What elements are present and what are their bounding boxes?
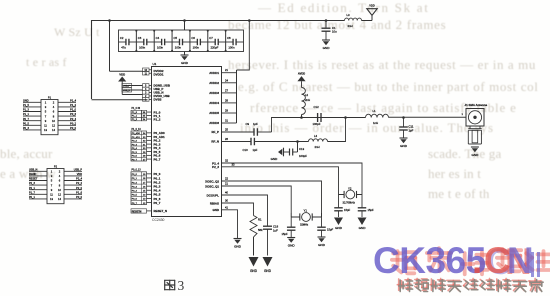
capacitor C10 1pF (RF_N) <box>222 138 309 146</box>
capacitor C3 100n <box>136 39 154 46</box>
watermark CK365 blue text <box>373 240 486 282</box>
svg-text:25: 25 <box>225 128 228 132</box>
svg-text:1pF: 1pF <box>409 129 414 133</box>
svg-text:P1_1: P1_1 <box>23 113 29 116</box>
svg-text:USB_N: USB_N <box>29 168 38 171</box>
svg-text:P2_3: P2_3 <box>212 165 219 169</box>
wire capbank v3 <box>171 30 173 52</box>
svg-text:P2_0: P2_0 <box>76 187 82 190</box>
svg-text:GND: GND <box>400 144 408 148</box>
wire VDD riser <box>371 15 373 21</box>
svg-text:AVDD2: AVDD2 <box>209 81 219 85</box>
svg-text:100pF: 100pF <box>299 154 307 158</box>
svg-text:P0_7: P0_7 <box>132 159 138 161</box>
svg-text:24: 24 <box>225 78 228 82</box>
svg-text:15pF: 15pF <box>327 228 333 232</box>
svg-text:DVDD1: DVDD1 <box>154 73 164 77</box>
svg-text:C3: C3 <box>138 36 142 40</box>
svg-text:47u: 47u <box>121 45 126 49</box>
svg-text:CC2430: CC2430 <box>152 218 165 222</box>
svg-text:VDD: VDD <box>119 72 125 76</box>
svg-text:AVDD1: AVDD1 <box>209 71 219 75</box>
ground below C1 <box>322 40 330 50</box>
svg-text:P0_4: P0_4 <box>70 118 76 121</box>
ground arrow below C18 <box>263 257 273 273</box>
svg-text:2nH: 2nH <box>315 145 320 149</box>
svg-text:56k: 56k <box>258 228 263 232</box>
svg-text:L1: L1 <box>373 109 377 113</box>
svg-text:15pF: 15pF <box>282 232 288 236</box>
svg-text:12: 12 <box>58 193 61 197</box>
svg-text:31: 31 <box>225 119 228 123</box>
wire y2 lead l <box>339 194 345 196</box>
power VDD <box>367 4 377 16</box>
capacitor bank box <box>119 30 244 52</box>
svg-text:21: 21 <box>225 182 228 186</box>
svg-text:P1: P1 <box>48 95 52 99</box>
svg-text:RF_P: RF_P <box>211 130 219 134</box>
capacitor C18 1uF <box>263 226 272 256</box>
inductor L3 <box>345 18 362 20</box>
svg-text:USB_P: USB_P <box>123 86 131 88</box>
svg-text:P0_7: P0_7 <box>132 203 138 205</box>
svg-text:100pF: 100pF <box>313 122 321 126</box>
svg-text:VDD: VDD <box>77 173 82 176</box>
svg-text:C9: C9 <box>246 122 250 126</box>
node rail-avdd <box>248 19 251 22</box>
svg-text:C12: C12 <box>314 105 320 109</box>
svg-text:40: 40 <box>225 191 228 195</box>
svg-text:1: 1 <box>51 170 53 174</box>
svg-text:C10: C10 <box>243 148 249 152</box>
svg-text:C7: C7 <box>209 36 213 40</box>
svg-text:2nH: 2nH <box>305 98 310 102</box>
svg-text:32.768kHz: 32.768kHz <box>343 200 356 204</box>
wire y1 lead l <box>291 216 300 218</box>
svg-text:AVDD: AVDD <box>298 71 305 75</box>
svg-text:2: 2 <box>59 170 61 174</box>
svg-text:GND: GND <box>23 99 29 102</box>
svg-text:1pF: 1pF <box>253 148 258 152</box>
wire C13 drop <box>297 142 299 153</box>
svg-text:P0_7: P0_7 <box>154 157 161 161</box>
wire USB_N stub <box>123 89 142 91</box>
inductor L1 <box>366 114 389 117</box>
svg-text:21: 21 <box>225 68 228 72</box>
resistor R1 56k <box>250 216 257 238</box>
svg-text:10: 10 <box>52 119 55 123</box>
svg-text:GND: GND <box>212 208 219 212</box>
capacitor C9 1pF (RF_P) <box>222 128 272 136</box>
svg-text:12: 12 <box>52 124 55 128</box>
wire match rail <box>272 117 317 119</box>
connector table group P0 <box>131 170 161 205</box>
svg-text:P0_1: P0_1 <box>29 196 35 199</box>
wire DVDD wire <box>110 70 143 72</box>
svg-text:29: 29 <box>225 109 228 113</box>
capacitor C2 47u <box>119 39 137 46</box>
node rail-shunt <box>325 19 328 22</box>
ground capbank <box>181 55 189 65</box>
svg-text:J1 SMA Antenna: J1 SMA Antenna <box>465 103 488 107</box>
svg-text:1pF: 1pF <box>253 122 258 126</box>
node C11 tap <box>402 116 405 119</box>
svg-text:P1_2: P1_2 <box>132 119 138 121</box>
svg-text:P0_0: P0_0 <box>70 127 76 130</box>
svg-text:GND: GND <box>318 243 326 247</box>
svg-text:C5: C5 <box>174 36 178 40</box>
svg-text:P1_4: P1_4 <box>70 99 76 102</box>
svg-text:1: 1 <box>45 101 47 105</box>
svg-text:100n: 100n <box>193 45 200 49</box>
wire shunt drop <box>325 21 327 28</box>
svg-text:8: 8 <box>59 183 61 187</box>
antenna connector J1 SMA <box>462 103 488 126</box>
svg-text:Y1: Y1 <box>304 209 308 213</box>
capacitor C8 100n <box>226 39 244 46</box>
svg-text:RESETN: RESETN <box>132 210 142 213</box>
IC left pin names <box>154 69 171 102</box>
svg-text:7: 7 <box>45 114 47 118</box>
node L2 junction <box>300 116 303 119</box>
svg-text:2nH: 2nH <box>348 24 353 28</box>
svg-text:27: 27 <box>225 88 228 92</box>
wire DVDD drop <box>109 21 111 72</box>
svg-text:GND: GND <box>359 226 367 230</box>
svg-text:1uF: 1uF <box>273 229 278 233</box>
wire capbank v6 <box>225 30 227 52</box>
connector table group P0 AD <box>131 129 165 162</box>
wire capbank feed <box>184 21 186 31</box>
wire capbank gnd drop <box>184 52 186 55</box>
svg-text:33: 33 <box>232 162 235 166</box>
ground arrow below R1 <box>249 257 259 273</box>
wire L1 to antenna <box>389 116 467 118</box>
svg-text:41: 41 <box>225 205 228 209</box>
svg-text:GND: GND <box>471 153 479 157</box>
svg-text:AVDD4: AVDD4 <box>209 101 219 105</box>
svg-text:13: 13 <box>44 128 47 132</box>
svg-text:220pF: 220pF <box>211 45 219 49</box>
svg-text:30: 30 <box>225 199 228 203</box>
svg-text:XOSC_Q1: XOSC_Q1 <box>205 184 219 188</box>
svg-text:GND: GND <box>264 269 272 273</box>
wire capbank v4 <box>189 30 191 52</box>
ground below C17 <box>287 238 295 248</box>
figure caption 图3 <box>165 278 185 293</box>
inductor L4 <box>309 139 328 142</box>
wire AVDD bus <box>236 70 238 123</box>
svg-text:100n: 100n <box>157 45 164 49</box>
svg-text:L4: L4 <box>314 134 318 138</box>
svg-text:P0_7: P0_7 <box>23 118 29 121</box>
svg-text:C6: C6 <box>191 36 195 40</box>
svg-text:14: 14 <box>52 128 55 132</box>
svg-text:RF_N: RF_N <box>211 140 219 144</box>
wire usb third stub <box>122 94 142 96</box>
svg-text:P0_0: P0_0 <box>76 196 82 199</box>
svg-text:AVDD6: AVDD6 <box>209 121 219 125</box>
svg-text:P2_4: P2_4 <box>76 178 82 181</box>
wire RF_P up to match rail <box>272 118 346 133</box>
svg-text:U1: U1 <box>153 62 157 66</box>
svg-text:6: 6 <box>53 110 55 114</box>
svg-text:P2_3: P2_3 <box>29 182 35 185</box>
ground below C15 <box>334 218 343 231</box>
crystal Y2 32.768kHz <box>344 190 356 199</box>
svg-text:P0_7: P0_7 <box>154 201 161 205</box>
svg-text:R1: R1 <box>258 218 262 222</box>
svg-text:2: 2 <box>53 101 55 105</box>
watermark slogan pseudo-CJK <box>397 278 543 292</box>
svg-text:GND: GND <box>335 226 343 230</box>
svg-text:11: 11 <box>50 193 53 197</box>
node rail-left2 <box>108 19 111 22</box>
wire AVDD bus to rail <box>237 21 250 71</box>
svg-text:4: 4 <box>59 174 61 178</box>
svg-text:USB_P: USB_P <box>74 168 83 171</box>
wire y1 vert l <box>290 213 292 217</box>
svg-text:DCOUPL: DCOUPL <box>207 193 220 197</box>
IC U1 CC2430 <box>152 67 222 217</box>
svg-text:1nH: 1nH <box>373 121 378 125</box>
svg-text:P1_7: P1_7 <box>29 191 35 194</box>
capacitor C14 15pF <box>358 195 367 218</box>
svg-text:P1_3: P1_3 <box>23 109 29 112</box>
connector P2 <box>29 164 83 203</box>
svg-text:4: 4 <box>53 105 55 109</box>
svg-text:P1_2: P1_2 <box>70 104 76 107</box>
connector table group P1_0..P1_2 <box>131 108 161 121</box>
svg-text:100n: 100n <box>175 45 182 49</box>
capacitor C4 100n <box>154 39 172 46</box>
svg-text:26: 26 <box>225 137 228 141</box>
svg-text:DGND: DGND <box>29 173 37 176</box>
AVDD pin bus <box>209 68 236 125</box>
wire L2 lower lead <box>301 115 303 118</box>
svg-text:C4: C4 <box>156 36 160 40</box>
svg-text:1: 1 <box>462 112 464 116</box>
svg-text:P2_2: P2_2 <box>76 182 82 185</box>
wire y1 vert r <box>321 213 323 217</box>
svg-text:GND: GND <box>250 269 258 273</box>
ground left-pointing for C13 <box>271 148 284 161</box>
capacitor C16 15pF <box>317 217 326 237</box>
pin cells DVDD/USB <box>143 68 152 102</box>
svg-text:GND: GND <box>323 46 331 50</box>
svg-text:P1_0 36: P1_0 36 <box>132 108 141 110</box>
svg-text:28: 28 <box>225 98 228 102</box>
svg-text:P2: P2 <box>54 164 58 168</box>
svg-text:C8: C8 <box>227 36 231 40</box>
svg-text:32MHz: 32MHz <box>300 223 309 227</box>
svg-text:100n: 100n <box>139 45 146 49</box>
wire capbank v1 <box>135 30 137 52</box>
svg-text:9: 9 <box>51 188 53 192</box>
svg-text:AVDD3: AVDD3 <box>209 91 219 95</box>
capacitor C5 100n <box>172 39 190 46</box>
watermark red chinese characters <box>392 248 550 274</box>
svg-text:10u: 10u <box>332 30 337 34</box>
capacitor C7 220pF <box>208 39 226 46</box>
capacitor C11 1pF <box>399 118 408 138</box>
ground IC gnd <box>234 239 242 249</box>
svg-text:22: 22 <box>225 177 228 181</box>
node rfp junction <box>344 116 347 119</box>
svg-text:C2: C2 <box>120 36 124 40</box>
svg-text:100n: 100n <box>228 45 235 49</box>
wire L4 to junction <box>328 118 346 142</box>
power AVDD arrow <box>297 71 305 87</box>
antenna mounting legs <box>468 126 481 144</box>
svg-text:P1_6: P1_6 <box>76 191 82 194</box>
svg-text:RESET: RESET <box>29 178 38 181</box>
net RESETN <box>131 209 167 214</box>
svg-text:3: 3 <box>178 278 185 293</box>
wire y2 lead r <box>357 194 363 196</box>
watermark .CN red text <box>472 240 482 282</box>
svg-text:P1_5: P1_5 <box>23 104 29 107</box>
capacitor C6 100n <box>190 39 208 46</box>
svg-text:USB_N: USB_N <box>123 90 131 92</box>
svg-text:10: 10 <box>58 188 61 192</box>
svg-text:Y2: Y2 <box>348 187 352 191</box>
svg-text:VDD: VDD <box>369 4 375 8</box>
wire rail to L1 <box>346 117 366 119</box>
svg-text:13: 13 <box>50 197 53 201</box>
svg-text:15pF: 15pF <box>368 208 374 212</box>
svg-text:8: 8 <box>53 114 55 118</box>
ground below C14 <box>358 218 367 231</box>
svg-text:RESET_N: RESET_N <box>154 209 168 213</box>
wire top power rail <box>92 21 345 100</box>
svg-text:P0_0_13: P0_0_13 <box>132 170 142 172</box>
wire DVSS wire <box>92 99 148 101</box>
inductor L2 <box>302 88 306 115</box>
svg-text:15pF: 15pF <box>344 208 350 212</box>
svg-text:5: 5 <box>45 110 47 114</box>
svg-text:14: 14 <box>58 197 61 201</box>
svg-text:P2_1: P2_1 <box>29 187 35 190</box>
crystal Y1 32MHz <box>300 213 312 222</box>
node rail-capbank <box>183 19 186 22</box>
svg-text:GND: GND <box>288 244 296 248</box>
wire capbank v2 <box>153 30 155 52</box>
svg-text:5: 5 <box>51 179 53 183</box>
svg-text:32: 32 <box>225 159 228 163</box>
svg-text:3: 3 <box>45 105 47 109</box>
ground antenna <box>471 147 479 157</box>
ground below C11 <box>400 138 408 148</box>
svg-text:C13: C13 <box>299 147 305 151</box>
wire USB_P stub <box>123 85 142 87</box>
svg-text:P0_2: P0_2 <box>70 122 76 125</box>
svg-text:P0_5: P0_5 <box>23 122 29 125</box>
capacitor C15 15pF <box>334 195 343 218</box>
svg-text:P1_0_13: P1_0_13 <box>132 129 142 131</box>
wire capbank v5 <box>207 30 209 52</box>
svg-text:7: 7 <box>51 183 53 187</box>
capacitor C1 decoupling <box>322 27 331 40</box>
wire y1 lead r <box>312 216 321 218</box>
svg-text:P0_6: P0_6 <box>70 113 76 116</box>
svg-text:L3: L3 <box>347 13 351 17</box>
svg-text:XOSC_Q2: XOSC_Q2 <box>205 179 219 183</box>
power VDD digital arrow <box>118 72 126 94</box>
connector P1 <box>23 95 77 134</box>
svg-text:GND: GND <box>234 245 242 249</box>
svg-text:P0_3: P0_3 <box>23 127 29 130</box>
svg-text:9: 9 <box>45 119 47 123</box>
svg-text:GND: GND <box>271 157 279 161</box>
svg-text:6: 6 <box>59 179 61 183</box>
svg-text:P1_2: P1_2 <box>154 117 161 121</box>
wire R1 to gnd <box>253 237 255 256</box>
wire rail to VDD <box>362 20 373 22</box>
svg-text:GND: GND <box>181 61 189 65</box>
ground below C16 <box>318 237 326 247</box>
svg-text:P1_0: P1_0 <box>70 109 76 112</box>
capacitor C17 15pF <box>287 217 296 237</box>
svg-text:AVDD5: AVDD5 <box>209 111 219 115</box>
svg-text:DVSS: DVSS <box>154 98 162 102</box>
svg-text:RBIAS: RBIAS <box>210 201 219 205</box>
capacitor C12 series <box>316 113 323 122</box>
svg-text:11: 11 <box>44 124 47 128</box>
node rfn shunt <box>296 140 299 143</box>
svg-text:L2: L2 <box>305 93 309 97</box>
svg-text:3: 3 <box>51 174 53 178</box>
